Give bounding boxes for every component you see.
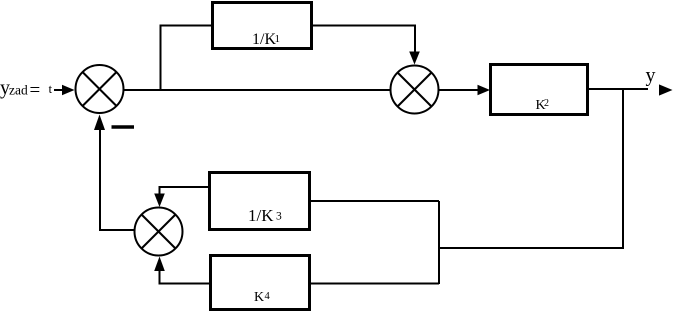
svg-text:1/K: 1/K (252, 31, 276, 48)
svg-text:K: K (254, 290, 264, 305)
svg-text:zad: zad (9, 83, 28, 98)
svg-text:1/K: 1/K (248, 206, 274, 225)
svg-text:=: = (30, 80, 41, 101)
svg-text:2: 2 (544, 98, 549, 109)
svg-text:3: 3 (276, 211, 282, 223)
svg-text:4: 4 (265, 291, 271, 302)
svg-text:t: t (49, 81, 53, 96)
svg-text:y: y (646, 65, 656, 87)
svg-text:1: 1 (275, 33, 281, 45)
